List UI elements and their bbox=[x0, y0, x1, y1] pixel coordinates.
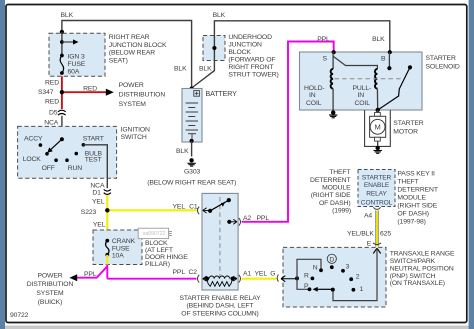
svg-text:IN: IN bbox=[309, 92, 316, 99]
svg-text:M: M bbox=[375, 123, 381, 132]
svg-text:FUSE: FUSE bbox=[68, 61, 86, 68]
battery + terminal bbox=[194, 91, 200, 97]
svg-text:C2: C2 bbox=[189, 269, 198, 276]
svg-text:MODULE: MODULE bbox=[397, 194, 426, 201]
svg-text:CONTROL: CONTROL bbox=[361, 199, 393, 206]
svg-text:BLK: BLK bbox=[176, 148, 189, 155]
pull-in coil bbox=[334, 57, 378, 70]
svg-text:IN: IN bbox=[358, 92, 365, 99]
svg-text:A2: A2 bbox=[243, 215, 251, 222]
pin A2 bbox=[227, 220, 231, 224]
svg-text:A4: A4 bbox=[364, 212, 372, 219]
svg-text:(1999): (1999) bbox=[332, 208, 351, 215]
wire RED fuse to S347 to D5 bbox=[61, 76, 63, 109]
svg-text:STRUT TOWER): STRUT TOWER) bbox=[228, 72, 278, 79]
svg-text:THEFT: THEFT bbox=[329, 169, 350, 176]
ground below starter motor bbox=[376, 146, 380, 150]
svg-text:D5: D5 bbox=[49, 110, 58, 117]
svg-text:OFF: OFF bbox=[42, 165, 55, 172]
svg-text:YEL/BLK: YEL/BLK bbox=[347, 230, 374, 237]
solenoid moving contact bbox=[408, 65, 412, 69]
wire BLK top-mid (underhood block to solenoid B) bbox=[214, 21, 389, 53]
svg-text:RED: RED bbox=[45, 79, 59, 86]
pin E arrow bbox=[373, 248, 380, 253]
svg-text:STARTER: STARTER bbox=[426, 55, 456, 62]
svg-text:DISTRIBUTION: DISTRIBUTION bbox=[119, 92, 166, 99]
node underhood dot bbox=[212, 46, 216, 50]
watermark box va090722 bbox=[138, 228, 168, 238]
svg-text:PASS KEY II: PASS KEY II bbox=[397, 170, 435, 177]
svg-text:YEL: YEL bbox=[93, 222, 106, 229]
mechanical dashed link bbox=[335, 78, 405, 80]
svg-text:va090722: va090722 bbox=[143, 231, 166, 237]
svg-text:S: S bbox=[323, 56, 328, 63]
svg-text:ACCY: ACCY bbox=[24, 136, 43, 143]
svg-text:SWITCH/PARK: SWITCH/PARK bbox=[390, 258, 436, 265]
wire START to D1 bbox=[83, 145, 107, 189]
svg-text:OF STEERING COLUMN): OF STEERING COLUMN) bbox=[181, 310, 258, 317]
pin C2 bbox=[197, 275, 199, 283]
transaxle range switch box bbox=[283, 247, 386, 307]
right blue strip bbox=[469, 0, 474, 329]
svg-text:IGN 3: IGN 3 bbox=[68, 54, 85, 61]
solenoid B contact bbox=[388, 52, 390, 68]
relay contact arm bbox=[208, 209, 212, 213]
svg-text:90722: 90722 bbox=[10, 312, 29, 319]
svg-text:PPL: PPL bbox=[317, 36, 330, 43]
svg-text:(PNP) SWITCH: (PNP) SWITCH bbox=[390, 273, 436, 280]
svg-text:COIL: COIL bbox=[306, 100, 322, 107]
ignition switch lever bbox=[60, 137, 64, 141]
PNP common junction bbox=[295, 276, 299, 280]
pin C1 bbox=[197, 207, 199, 215]
svg-text:(BELOW RIGHT REAR SEAT): (BELOW RIGHT REAR SEAT) bbox=[147, 179, 236, 186]
svg-text:HOLD-: HOLD- bbox=[304, 85, 325, 92]
svg-text:MODULE: MODULE bbox=[322, 185, 351, 192]
svg-text:RED: RED bbox=[83, 85, 97, 92]
svg-text:DETERRENT: DETERRENT bbox=[310, 177, 350, 184]
svg-text:D1: D1 bbox=[92, 190, 101, 197]
starter solenoid box bbox=[300, 52, 423, 110]
svg-text:RIGHT REAR: RIGHT REAR bbox=[109, 34, 150, 41]
svg-text:1: 1 bbox=[360, 286, 364, 293]
svg-text:(RIGHT SIDE: (RIGHT SIDE bbox=[397, 202, 437, 209]
svg-text:(AT LEFT: (AT LEFT bbox=[145, 247, 173, 254]
svg-text:COIL: COIL bbox=[355, 100, 371, 107]
starter motor M bbox=[377, 110, 379, 113]
svg-text:G: G bbox=[270, 270, 275, 277]
ignition switch box bbox=[18, 126, 117, 178]
svg-text:2: 2 bbox=[356, 274, 360, 281]
svg-text:BLOCK: BLOCK bbox=[145, 240, 168, 247]
svg-text:BLK: BLK bbox=[61, 12, 74, 19]
wire PPL diagonal to left arrow bbox=[76, 266, 108, 277]
bottom gray strip bbox=[0, 326, 474, 329]
svg-text:START: START bbox=[83, 136, 104, 143]
svg-text:10A: 10A bbox=[112, 253, 124, 260]
pin A1 bbox=[233, 276, 237, 281]
svg-text:BLOCK: BLOCK bbox=[228, 49, 251, 56]
wire junction to N contact bbox=[297, 259, 321, 278]
svg-text:PPL: PPL bbox=[173, 269, 186, 276]
svg-text:ENABLE: ENABLE bbox=[364, 182, 390, 189]
svg-text:G303: G303 bbox=[184, 168, 200, 175]
svg-text:LOCK: LOCK bbox=[23, 156, 42, 163]
svg-text:NEUTRAL POSITION: NEUTRAL POSITION bbox=[390, 265, 454, 272]
svg-text:POWER: POWER bbox=[37, 272, 62, 279]
svg-text:NCA: NCA bbox=[44, 119, 59, 126]
svg-text:STARTER: STARTER bbox=[362, 174, 392, 181]
svg-text:PPL: PPL bbox=[257, 215, 270, 222]
svg-text:RIGHT FRONT: RIGHT FRONT bbox=[228, 64, 273, 71]
wire junction to P contact bbox=[297, 278, 308, 289]
svg-text:JUNCTION: JUNCTION bbox=[228, 42, 262, 49]
svg-text:(BUICK): (BUICK) bbox=[38, 299, 62, 306]
svg-text:(RIGHT SIDE: (RIGHT SIDE bbox=[311, 192, 351, 199]
underhood junction block box bbox=[203, 36, 225, 61]
battery - terminal T bbox=[188, 133, 196, 135]
svg-text:NCA: NCA bbox=[90, 183, 105, 190]
svg-text:N: N bbox=[313, 265, 318, 272]
svg-text:BLK: BLK bbox=[372, 36, 385, 43]
pin A4 bbox=[373, 207, 380, 209]
wire into ignition switch bbox=[61, 116, 63, 139]
svg-text:OF DASH): OF DASH) bbox=[397, 210, 429, 217]
starter enable relay box bbox=[202, 193, 238, 290]
svg-text:SYSTEM: SYSTEM bbox=[119, 101, 147, 108]
svg-text:YEL: YEL bbox=[255, 270, 268, 277]
svg-text:TEST: TEST bbox=[85, 157, 102, 164]
left blue strip bbox=[0, 0, 5, 329]
relay dashed link line bbox=[219, 197, 221, 277]
node pull-in coil / motor junction bbox=[376, 108, 380, 112]
svg-text:DISTRIBUTION: DISTRIBUTION bbox=[27, 281, 74, 288]
PNP arm with arrow to P bbox=[317, 288, 333, 290]
svg-text:DETERRENT: DETERRENT bbox=[397, 186, 437, 193]
svg-text:FUSE: FUSE bbox=[112, 245, 130, 252]
svg-text:CRANK: CRANK bbox=[112, 238, 136, 245]
svg-text:STARTER ENABLE RELAY: STARTER ENABLE RELAY bbox=[179, 295, 261, 302]
wire YEL relay A1 to PNP G bbox=[242, 278, 277, 280]
wire YEL inside fuse box bottom bbox=[106, 255, 108, 265]
wire PPL junction to relay C2 bbox=[107, 278, 196, 280]
svg-text:C1: C1 bbox=[189, 204, 198, 211]
wire RED to power distribution arrow bbox=[62, 91, 107, 93]
svg-text:PULL-: PULL- bbox=[353, 85, 372, 92]
svg-text:THEFT: THEFT bbox=[397, 178, 418, 185]
wire PPL relay A2 to solenoid S bbox=[242, 42, 334, 222]
svg-text:RUN: RUN bbox=[68, 165, 83, 172]
wire PPL crank fuse to junction bbox=[106, 265, 108, 279]
svg-text:BLK: BLK bbox=[199, 66, 212, 73]
svg-text:RELAY: RELAY bbox=[366, 190, 387, 197]
svg-text:(1997-98): (1997-98) bbox=[397, 218, 425, 225]
wire BLK top-left (junction block to battery +) bbox=[62, 21, 192, 89]
theft deterrent module box STARTER ENABLE RELAY CONTROL bbox=[358, 170, 395, 207]
battery plates bbox=[186, 102, 198, 104]
svg-text:POWER: POWER bbox=[119, 82, 144, 89]
svg-text:A1: A1 bbox=[243, 270, 251, 277]
svg-text:SWITCH: SWITCH bbox=[121, 134, 147, 141]
node S-junction dot top bbox=[60, 30, 64, 34]
relay coil bbox=[205, 277, 209, 281]
svg-text:R: R bbox=[304, 272, 309, 279]
ground below hold-in coil bbox=[331, 110, 335, 114]
svg-text:E: E bbox=[367, 241, 372, 248]
svg-text:STARTER: STARTER bbox=[393, 120, 423, 127]
svg-text:625: 625 bbox=[380, 230, 391, 237]
svg-text:PILLAR): PILLAR) bbox=[145, 261, 170, 268]
svg-text:SYSTEM: SYSTEM bbox=[36, 290, 64, 297]
fuse IGN 3 60A bbox=[60, 54, 64, 58]
wire BLK battery to G303 bbox=[190, 139, 194, 143]
crank fuse box bbox=[93, 230, 142, 265]
hold-in coil bbox=[332, 52, 334, 69]
svg-text:(BEHIND DASH, LEFT: (BEHIND DASH, LEFT bbox=[187, 303, 254, 310]
svg-text:PPL: PPL bbox=[84, 271, 97, 278]
wire YEL S223 down to crank fuse bbox=[106, 210, 108, 240]
svg-text:RED: RED bbox=[45, 98, 59, 105]
svg-text:YEL: YEL bbox=[173, 204, 186, 211]
wire through underhood block bbox=[213, 36, 215, 61]
wire BLK underhood block to battery + bbox=[192, 61, 215, 89]
svg-text:(BELOW REAR: (BELOW REAR bbox=[109, 50, 155, 57]
svg-text:JUNCTION BLOCK: JUNCTION BLOCK bbox=[109, 42, 167, 49]
svg-text:BLK: BLK bbox=[174, 66, 187, 73]
svg-text:(ON TRANSAXLE): (ON TRANSAXLE) bbox=[390, 280, 445, 287]
svg-text:DOOR HINGE: DOOR HINGE bbox=[145, 254, 188, 261]
svg-text:S347: S347 bbox=[38, 89, 54, 96]
svg-text:60A: 60A bbox=[68, 69, 80, 76]
svg-text:MOTOR: MOTOR bbox=[393, 128, 418, 135]
svg-text:SEAT): SEAT) bbox=[109, 57, 128, 64]
relay coil resistor zigzag bbox=[207, 279, 233, 286]
wire YEL D1 to S223 bbox=[106, 195, 108, 210]
contact D circled bbox=[327, 254, 336, 263]
svg-text:TRANSAXLE RANGE: TRANSAXLE RANGE bbox=[390, 251, 455, 258]
svg-text:B: B bbox=[381, 56, 386, 63]
svg-text:YEL: YEL bbox=[92, 199, 105, 206]
svg-text:(FORWARD OF: (FORWARD OF bbox=[228, 57, 275, 64]
svg-text:BATTERY: BATTERY bbox=[206, 90, 238, 98]
svg-text:IGNITION: IGNITION bbox=[121, 127, 150, 134]
svg-text:3: 3 bbox=[346, 264, 350, 271]
wire YEL/BLK A4 to E bbox=[376, 211, 379, 247]
svg-text:S223: S223 bbox=[81, 209, 97, 216]
ground G303 bbox=[189, 158, 193, 162]
PNP internal wiring from E bbox=[333, 248, 377, 300]
wire YEL S223 to relay C1 bbox=[107, 209, 196, 211]
pin G arrow bbox=[277, 275, 278, 282]
svg-text:OF DASH): OF DASH) bbox=[319, 200, 351, 207]
battery bbox=[190, 87, 194, 91]
svg-text:D: D bbox=[329, 257, 334, 264]
starter motor bracket bbox=[365, 110, 391, 146]
right rear junction block box bbox=[49, 33, 105, 76]
svg-text:BLK: BLK bbox=[213, 12, 226, 19]
svg-text:UNDERHOOD: UNDERHOOD bbox=[228, 34, 272, 41]
fuse CRANK 10A bbox=[105, 239, 109, 243]
wire stub with arrow inside junction block bbox=[61, 32, 63, 55]
svg-text:SOLENOID: SOLENOID bbox=[426, 64, 460, 71]
